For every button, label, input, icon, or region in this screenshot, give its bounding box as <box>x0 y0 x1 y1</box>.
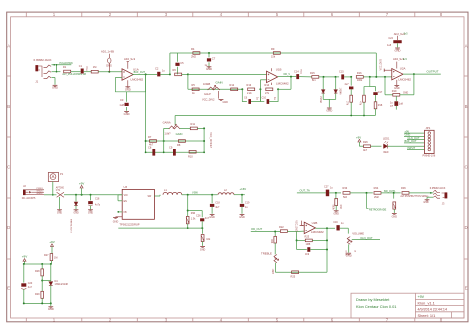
svg-text:R33: R33 <box>343 186 348 190</box>
svg-text:C26: C26 <box>196 215 201 218</box>
svg-text:R11: R11 <box>191 122 196 126</box>
svg-text:B: B <box>7 104 10 109</box>
feedback riser right <box>326 228 328 272</box>
resistor R19 feedback <box>393 94 400 97</box>
diode D2 germanium <box>322 77 324 90</box>
svg-text:J1: J1 <box>35 80 38 84</box>
LED1 <box>384 144 388 149</box>
node mixer 3 <box>393 192 395 194</box>
svg-text:GND: GND <box>125 87 131 91</box>
frame row ticks left <box>7 75 11 77</box>
svg-text:4u7: 4u7 <box>215 206 220 209</box>
svg-text:GND: GND <box>52 86 58 90</box>
svg-text:A: A <box>7 43 10 48</box>
resistor R27 from +9V <box>51 246 53 253</box>
resistor R7 <box>150 140 157 143</box>
ground volume pot <box>348 244 350 252</box>
resistor R6 <box>175 73 182 76</box>
svg-text:GND: GND <box>206 67 212 71</box>
supply +9V arrow power <box>81 188 83 195</box>
svg-text:1u8: 1u8 <box>399 102 404 105</box>
riser to U1B inverting input <box>259 80 261 90</box>
svg-text:R4: R4 <box>191 47 195 51</box>
svg-text:LMC6482: LMC6482 <box>398 78 411 82</box>
svg-text:ALT.PUSHBUTTON SMALL: ALT.PUSHBUTTON SMALL <box>400 195 429 198</box>
wire output row start <box>297 192 326 194</box>
svg-text:LMC6482: LMC6482 <box>276 82 289 86</box>
svg-text:1N34A: 1N34A <box>319 96 322 104</box>
wire bias left leg <box>23 264 25 283</box>
capacitor C21 filter electrolytic <box>90 195 92 201</box>
svg-text:R6: R6 <box>173 68 177 72</box>
svg-text:U2A: U2A <box>400 67 406 71</box>
svg-text:TREBLE: TREBLE <box>261 251 272 255</box>
svg-text:ADJ_1+9B: ADJ_1+9B <box>101 50 114 54</box>
node diode D3 <box>335 76 337 78</box>
svg-text:LMC6482: LMC6482 <box>131 78 144 82</box>
wire bias bottom row <box>24 302 51 304</box>
svg-text:CLN_OUT: CLN_OUT <box>360 236 373 240</box>
branch to pre out label <box>367 193 369 208</box>
connector J3 pin contacts <box>433 190 440 192</box>
svg-text:C7: C7 <box>212 56 216 60</box>
branch2 jog <box>370 77 376 87</box>
wire long lower rail <box>175 115 375 117</box>
capacitor C19 output coupling <box>336 225 339 230</box>
svg-text:EN: EN <box>124 201 128 203</box>
svg-text:R18: R18 <box>378 104 383 107</box>
IC U3 charge pump <box>122 189 154 219</box>
svg-text:ADJ_9+9: ADJ_9+9 <box>124 57 136 61</box>
svg-text:GND: GND <box>333 213 339 216</box>
ground C3 <box>124 110 129 112</box>
frame column ticks bottom <box>25 318 27 322</box>
svg-text:A: A <box>465 43 468 48</box>
node bias junction <box>108 71 110 73</box>
svg-text:+9V: +9V <box>22 255 28 259</box>
svg-text:C9: C9 <box>169 146 173 150</box>
resistor R8 mid row <box>178 140 185 143</box>
supply +9V bias top <box>51 244 54 247</box>
node divider middle <box>41 280 43 282</box>
wire feedback bottom rail <box>118 227 203 229</box>
node cell1 right <box>259 88 261 90</box>
svg-text:GAIN: GAIN <box>176 132 183 136</box>
gain pot wiper to ground <box>218 91 220 99</box>
feedback row U2A <box>385 94 393 96</box>
wire tone bottom row <box>275 271 327 273</box>
svg-text:VCC_DIV2: VCC_DIV2 <box>295 220 297 232</box>
svg-text:C14: C14 <box>294 70 299 74</box>
capacitor C22 mid filter <box>211 194 213 196</box>
svg-text:LMC6482: LMC6482 <box>311 230 324 234</box>
svg-text:R9: R9 <box>271 47 275 51</box>
wire feedback up to output <box>413 74 415 95</box>
svg-text:Klon Centaur Clon 0.01: Klon Centaur Clon 0.01 <box>356 304 396 309</box>
svg-text:VOLUME: VOLUME <box>352 231 364 235</box>
svg-text:GND: GND <box>223 101 229 104</box>
svg-text:DNS: DNS <box>106 64 112 68</box>
wire jack ring to tip <box>52 64 72 66</box>
capacitor C7 <box>208 53 210 57</box>
svg-text:D: D <box>465 225 468 230</box>
capacitor C8 bottom row <box>152 149 155 156</box>
svg-text:E: E <box>465 285 468 290</box>
svg-text:FB: FB <box>124 212 127 214</box>
svg-text:GND: GND <box>423 202 428 204</box>
svg-text:R34: R34 <box>374 186 379 190</box>
svg-text:C1: C1 <box>79 64 83 68</box>
svg-text:10kB: 10kB <box>271 269 273 275</box>
svg-text:VCC_DIV2: VCC_DIV2 <box>202 98 215 102</box>
diode D4 <box>50 264 52 281</box>
node +16V output <box>241 194 243 196</box>
svg-text:R5: R5 <box>192 83 196 87</box>
resistor R24 tone lower <box>274 232 276 237</box>
svg-text:B: B <box>465 104 468 109</box>
ground clipping diodes <box>327 107 332 109</box>
svg-text:1.8k?: 1.8k? <box>165 132 172 135</box>
capacitor C15 clipping row <box>341 74 344 79</box>
node riser mid <box>163 140 165 142</box>
wire feedback to output riser <box>278 88 291 90</box>
capacitor C2 <box>157 72 160 77</box>
svg-text:GND: GND <box>239 216 245 219</box>
svg-text:BUF_OUT: BUF_OUT <box>405 139 417 143</box>
potentiometer TREBLE <box>274 255 277 263</box>
svg-text:Sheet: 1/1: Sheet: 1/1 <box>418 313 436 318</box>
frame row ticks right <box>464 75 468 77</box>
wire to U1B inverting input <box>188 73 267 75</box>
wire pot wiper to long rail <box>174 116 176 125</box>
svg-text:560k: 560k <box>332 205 334 211</box>
svg-text:1N914/4148: 1N914/4148 <box>55 283 69 286</box>
svg-text:1M8: 1M8 <box>306 243 311 246</box>
resistor R11 top row <box>190 127 197 130</box>
svg-text:100kB: 100kB <box>203 82 211 86</box>
gain cell row top pot <box>164 127 169 129</box>
svg-text:U2B: U2B <box>312 221 318 225</box>
ground C11 <box>395 47 400 49</box>
node top rail C7 <box>208 52 210 54</box>
cell2 resistor <box>266 88 273 91</box>
wire top rail <box>170 52 376 54</box>
wire U1A power top <box>127 62 129 69</box>
U3 GND pin stub <box>116 216 123 218</box>
svg-text:4/9/2014 23:44:14: 4/9/2014 23:44:14 <box>418 308 447 312</box>
node branch1 <box>350 76 352 78</box>
capacitor C26 branch <box>188 210 203 212</box>
branch2 resistor <box>363 87 365 96</box>
svg-text:VIN: VIN <box>124 195 128 197</box>
svg-text:GND: GND <box>74 212 79 214</box>
wire U2A output <box>403 73 441 75</box>
svg-text:TPS62122DRUP: TPS62122DRUP <box>119 222 139 226</box>
op-amp U2B <box>304 222 315 233</box>
svg-text:GND: GND <box>326 108 332 112</box>
wire U2A power top <box>396 62 398 69</box>
wire U1A node down to gain network <box>145 74 147 152</box>
diode D5 schottky <box>75 195 77 202</box>
svg-text:1u8: 1u8 <box>387 44 392 47</box>
svg-text:15k: 15k <box>271 54 276 58</box>
svg-text:VCC_DIV2: VCC_DIV2 <box>381 58 383 70</box>
U3 pin stubs left <box>118 194 122 196</box>
svg-text:+9V: +9V <box>79 181 85 185</box>
inductor L1 <box>163 192 182 194</box>
wire U1A feedback loop <box>115 74 145 91</box>
wire down to volume pot <box>347 228 349 233</box>
svg-text:+16V: +16V <box>240 187 247 191</box>
cell1 resistor <box>248 88 255 91</box>
wire U1A power bottom to ground <box>127 80 129 86</box>
svg-text:JP1: JP1 <box>426 126 431 130</box>
node after L1 <box>187 194 189 196</box>
svg-text:GND: GND <box>88 212 93 214</box>
svg-text:R1: R1 <box>63 65 67 69</box>
svg-text:C: C <box>7 164 10 169</box>
svg-text:C: C <box>465 164 468 169</box>
U3 pin stub right SW <box>154 195 160 197</box>
clamp network DNS <box>108 63 110 71</box>
resistor R33 output row <box>343 192 350 195</box>
riser gain pot <box>163 128 165 141</box>
resistor R29 divider lower <box>41 291 44 298</box>
svg-text:GAIN: GAIN <box>216 80 223 84</box>
op-amp U2A <box>392 69 403 80</box>
bias flag U2A noninverting <box>383 69 385 72</box>
wire jack sleeve ground <box>427 196 433 198</box>
svg-text:R28: R28 <box>35 270 40 273</box>
package outline P1 <box>48 173 58 182</box>
capacitor C5 parallel branch <box>177 53 179 62</box>
diode D3 germanium <box>335 77 337 90</box>
ground fuse <box>59 197 61 209</box>
inductor L2 <box>218 193 234 195</box>
feedback divider riser <box>187 195 189 216</box>
svg-text:GND: GND <box>392 215 398 218</box>
svg-text:C24: C24 <box>388 37 393 40</box>
U3 FB pin stub <box>118 211 122 213</box>
resistor R26 LED <box>364 145 371 148</box>
svg-text:VSW: VSW <box>192 191 198 195</box>
svg-text:2M2: 2M2 <box>191 54 197 58</box>
svg-text:R8: R8 <box>177 143 181 147</box>
svg-text:+9V: +9V <box>49 240 55 244</box>
svg-text:4u7: 4u7 <box>28 286 33 289</box>
svg-text:CT1: CT1 <box>56 190 61 192</box>
svg-text:5k6: 5k6 <box>343 196 348 199</box>
svg-text:PULLDOWN: PULLDOWN <box>60 63 73 65</box>
svg-text:R13: R13 <box>247 83 252 87</box>
resistor R22 <box>280 230 287 233</box>
svg-text:4u7u: 4u7u <box>95 205 101 207</box>
feedback resistor R23 row <box>297 239 306 241</box>
svg-text:C27: C27 <box>324 185 329 188</box>
svg-text:PINHD-1X6: PINHD-1X6 <box>423 154 436 157</box>
svg-text:RED: RED <box>384 152 389 154</box>
wire into U2B inverting input <box>297 230 305 232</box>
svg-text:U1B: U1B <box>276 68 282 72</box>
trimmer R20 <box>186 216 189 223</box>
node after C2 <box>169 73 171 75</box>
resistor R31 to ground <box>202 228 204 234</box>
title block outline <box>351 293 464 318</box>
svg-text:GND: GND <box>403 92 408 94</box>
supply +9V bias left <box>23 259 26 262</box>
svg-text:1.3k: 1.3k <box>191 218 196 221</box>
svg-text:4k7: 4k7 <box>363 148 368 152</box>
wire bias top row <box>24 263 51 265</box>
connector J3 output jack <box>445 192 448 198</box>
svg-text:R29: R29 <box>35 293 40 296</box>
potentiometer GAIN A <box>169 126 180 129</box>
resistor R2 <box>91 70 98 73</box>
svg-text:GND: GND <box>209 216 215 219</box>
ground J3 <box>425 199 430 201</box>
svg-text:GAINA: GAINA <box>163 120 171 124</box>
resistor R28 divider upper <box>41 264 43 269</box>
svg-text:R12: R12 <box>230 83 235 87</box>
connector J2 DC jack <box>23 190 26 196</box>
svg-text:R7: R7 <box>148 135 152 139</box>
resistor R12 gain row <box>231 88 238 91</box>
svg-text:C19: C19 <box>333 221 338 224</box>
ground C7 <box>207 66 212 68</box>
svg-text:U3: U3 <box>124 185 128 189</box>
svg-text:VCC_DIV2: VCC_DIV2 <box>209 132 212 145</box>
svg-text:MBRS130LT3: MBRS130LT3 <box>69 219 71 233</box>
svg-text:C2: C2 <box>155 67 159 71</box>
svg-text:GND: GND <box>113 220 119 223</box>
svg-text:1N34A: 1N34A <box>338 88 341 96</box>
branch1 capacitor 4u7 and resistor 27k <box>350 77 352 86</box>
svg-text:GND: GND <box>124 112 130 116</box>
resistor R1 <box>64 70 71 73</box>
svg-text:4n7: 4n7 <box>205 217 210 220</box>
svg-text:1M: 1M <box>93 65 97 69</box>
resistor R32 to ground <box>335 193 337 199</box>
svg-text:1u8: 1u8 <box>119 103 124 107</box>
svg-text:R24: R24 <box>270 239 272 244</box>
fuse CT1 crossed <box>57 192 64 197</box>
svg-text:R15: R15 <box>310 71 315 75</box>
svg-text:BUF_OUT: BUF_OUT <box>134 71 146 74</box>
node R6 right <box>187 73 189 75</box>
svg-text:R32: R32 <box>339 205 341 210</box>
svg-text:C18: C18 <box>215 202 220 205</box>
svg-text:R25: R25 <box>291 274 296 278</box>
svg-text:3v3: 3v3 <box>403 58 408 61</box>
svg-text:GND: GND <box>200 249 206 252</box>
svg-text:0.1u: 0.1u <box>85 66 87 71</box>
pin header JP1 <box>425 130 435 153</box>
node top rail join <box>375 76 377 78</box>
svg-text:OD_V: OD_V <box>283 73 290 76</box>
svg-text:RETROGRADE: RETROGRADE <box>369 209 387 212</box>
resistor R10 bottom row <box>189 151 196 154</box>
svg-text:C19: C19 <box>245 202 250 205</box>
wire up from node to top rail <box>169 53 171 74</box>
svg-text:GND: GND <box>394 87 400 90</box>
svg-text:C5: C5 <box>180 61 184 65</box>
svg-text:GND: GND <box>346 254 352 258</box>
capacitor C23 electrolytic <box>21 283 26 286</box>
header JP1 wires <box>404 132 425 134</box>
svg-text:6.35MM JACK: 6.35MM JACK <box>430 187 446 190</box>
svg-text:R23: R23 <box>305 235 310 239</box>
wire U2A feedback riser <box>384 77 386 95</box>
node mixer 2 <box>366 192 368 194</box>
svg-text:GND2: GND2 <box>37 193 44 195</box>
svg-text:LED1: LED1 <box>383 137 390 141</box>
svg-text:GND: GND <box>57 212 62 214</box>
svg-text:+9V: +9V <box>356 135 361 139</box>
resistor R9 on top rail <box>273 52 280 55</box>
capacitor C27 output row <box>326 190 329 197</box>
wire volume wiper output <box>352 239 380 241</box>
title block dividers <box>414 293 416 318</box>
svg-text:OD_OUT: OD_OUT <box>251 227 263 231</box>
feedback riser left <box>296 232 298 250</box>
resistor R36 output row <box>402 192 409 195</box>
svg-text:R26: R26 <box>363 140 368 144</box>
wire into J3 <box>430 192 432 194</box>
svg-text:4k7: 4k7 <box>209 144 212 149</box>
gain cell row mid <box>146 140 205 142</box>
connector J1 input jack body <box>35 65 38 71</box>
resistor R15 clipping row <box>312 76 319 79</box>
potentiometer GAIN B <box>208 87 220 90</box>
bias flag U2B noninverting <box>300 224 304 226</box>
svg-text:C23: C23 <box>28 282 33 285</box>
svg-text:2.2k: 2.2k <box>247 92 252 95</box>
capacitor C1 <box>81 69 84 74</box>
svg-text:2M2: 2M2 <box>374 196 379 199</box>
capacitor C18 below feedback <box>395 96 397 101</box>
wire U2B output <box>315 227 335 229</box>
svg-text:Drawn by Mesektet: Drawn by Mesektet <box>356 297 390 302</box>
svg-text:C3: C3 <box>120 98 124 102</box>
svg-text:3n9: 3n9 <box>305 253 310 256</box>
svg-text:0.1u: 0.1u <box>301 69 303 74</box>
node right riser top <box>203 127 205 129</box>
resistor R4 on top rail <box>193 52 200 55</box>
op-amp U1A <box>122 69 133 80</box>
svg-text:C18: C18 <box>95 199 100 201</box>
svg-text:GND: GND <box>48 307 54 311</box>
svg-text:OUT_TA: OUT_TA <box>300 189 311 193</box>
wire U1A output <box>132 73 157 75</box>
feedback capacitor row <box>297 249 307 251</box>
node mixer 1 <box>335 192 337 194</box>
resistor R34 output row <box>374 192 381 195</box>
wire U1B output <box>278 76 297 78</box>
cell1 parallel capacitor branch <box>242 89 247 101</box>
svg-text:C10: C10 <box>262 97 267 100</box>
capacitor C9 bottom row <box>173 149 176 156</box>
svg-text:OUTPUT: OUTPUT <box>427 70 439 74</box>
gain cell row bottom <box>146 151 205 153</box>
capacitor C14 output coupling <box>296 74 299 79</box>
svg-text:Klon_v1.1: Klon_v1.1 <box>418 300 435 305</box>
nodes filter <box>75 194 77 196</box>
cell2 parallel capacitor branch <box>260 101 264 103</box>
svg-text:1M: 1M <box>54 256 57 259</box>
resistor R5 gain row <box>192 88 199 91</box>
wire into U2A inverting input <box>391 76 393 78</box>
svg-text:3v3: 3v3 <box>404 33 409 36</box>
